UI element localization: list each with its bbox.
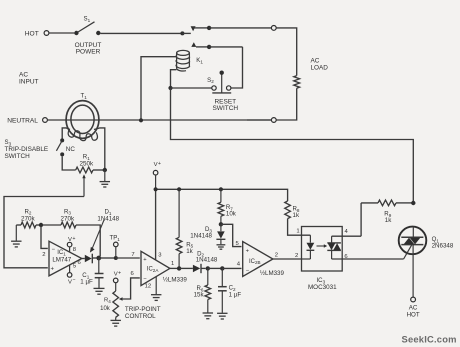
svg-text:10k: 10k <box>100 306 111 312</box>
wire <box>171 87 212 89</box>
ground <box>217 313 227 319</box>
node HOT input terminal <box>25 30 49 37</box>
svg-text:SeekIC.com: SeekIC.com <box>402 334 457 345</box>
label AC INPUT <box>19 72 39 86</box>
node junction <box>206 266 210 270</box>
watermark SeekIC.com <box>402 334 457 345</box>
svg-text:7: 7 <box>131 252 134 258</box>
wire winding right lead <box>94 128 105 168</box>
wire IC2A pin 12 to ground <box>145 277 157 295</box>
wire <box>92 257 114 259</box>
node junction <box>177 187 181 191</box>
resistor R5 1k <box>176 189 193 266</box>
arrow coupling symbol <box>317 244 328 248</box>
wire <box>276 88 297 120</box>
resistor R3 270k <box>42 208 76 228</box>
relay coil K1 <box>176 50 203 71</box>
wire coil bottom <box>171 70 177 87</box>
node AC load top terminal <box>271 26 276 31</box>
resistor R6 15k <box>194 268 211 312</box>
svg-text:AC: AC <box>19 72 28 79</box>
svg-text:270k: 270k <box>61 215 76 222</box>
node V+ pin 8 of IC1 <box>67 236 76 253</box>
ground <box>217 245 226 249</box>
resistor R7 10k <box>218 189 237 223</box>
wire IC3 pin 6 to triac gate <box>332 254 404 260</box>
svg-text:1k: 1k <box>186 248 193 255</box>
svg-text:NEUTRAL: NEUTRAL <box>7 118 38 125</box>
svg-text:POWER: POWER <box>76 48 101 55</box>
svg-text:10k: 10k <box>226 211 237 218</box>
node V+ terminal for R4 <box>113 270 121 291</box>
ground <box>11 225 21 247</box>
svg-text:250k: 250k <box>80 160 95 167</box>
LED inside IC3 <box>302 235 314 259</box>
svg-text:1N4148: 1N4148 <box>97 215 119 222</box>
ground <box>100 170 110 187</box>
test point TP1 <box>110 235 121 260</box>
ground <box>151 295 161 301</box>
node junction <box>220 266 224 270</box>
svg-text:SWITCH: SWITCH <box>212 105 238 112</box>
node NEUTRAL input terminal <box>7 118 47 125</box>
svg-text:12: 12 <box>145 284 152 290</box>
wire pin4 up to R9 <box>360 203 362 236</box>
switch S3 TRIP-DISABLE <box>5 138 76 160</box>
svg-text:NC: NC <box>66 146 76 153</box>
potentiometer R1 250k <box>76 153 103 196</box>
wire to IC1 pin 2 <box>41 226 48 258</box>
wire IC2A output pin 1 <box>170 261 178 268</box>
resistor R2 270k <box>16 208 39 228</box>
node V- pin 5 of IC1 <box>67 265 75 285</box>
svg-text:270k: 270k <box>21 215 36 222</box>
svg-text:+: + <box>158 161 161 167</box>
wire R3 feedback <box>76 225 100 256</box>
wire <box>231 47 243 88</box>
wire IC3 pin 4 <box>332 229 362 236</box>
node junction <box>411 201 415 205</box>
svg-text:INPUT: INPUT <box>19 79 39 86</box>
switch S1 OUTPUT POWER <box>74 16 101 56</box>
svg-text:1N4148: 1N4148 <box>196 257 218 264</box>
svg-text:+: + <box>50 266 54 272</box>
node junction <box>177 266 181 270</box>
relay contact K1-b (bottom) <box>191 42 242 49</box>
ground <box>110 317 120 326</box>
svg-text:15k: 15k <box>194 292 205 299</box>
node junction <box>139 118 143 122</box>
wire to IC2B pin 4 <box>222 262 241 269</box>
svg-text:+: + <box>72 236 75 242</box>
wire <box>208 267 221 269</box>
svg-text:CONTROL: CONTROL <box>125 313 156 320</box>
svg-text:R4: R4 <box>104 298 111 304</box>
node junction <box>103 168 107 172</box>
op-amp IC1 LM747 <box>49 241 82 276</box>
wire winding left lead <box>62 128 70 139</box>
node junction <box>39 223 43 227</box>
wire <box>101 32 182 34</box>
ground <box>203 313 213 319</box>
diode D3 1N4148 <box>190 224 225 244</box>
svg-text:HOT: HOT <box>25 30 39 37</box>
svg-text:½LM339: ½LM339 <box>163 276 188 283</box>
capacitor C2 1uF <box>218 268 241 312</box>
resistor R8 1k <box>285 201 300 219</box>
node junction <box>168 86 172 90</box>
wire R1 wiper to IC1 +input <box>4 197 84 268</box>
transformer T1 toroid <box>66 93 99 139</box>
svg-text:LOAD: LOAD <box>311 65 329 72</box>
wire triac MT1 to AC HOT <box>412 245 414 298</box>
svg-text:−: − <box>72 277 75 283</box>
resistor AC LOAD <box>294 58 328 89</box>
capacitor C1 1uF <box>80 258 103 288</box>
svg-text:LM747: LM747 <box>52 257 71 264</box>
svg-text:−: − <box>51 247 55 253</box>
svg-text:2: 2 <box>275 253 278 259</box>
svg-text:TRIP-POINT: TRIP-POINT <box>125 306 161 313</box>
resistor R9 1k <box>361 200 412 224</box>
svg-text:½LM339: ½LM339 <box>260 270 285 277</box>
ground <box>94 288 105 294</box>
svg-text:1k: 1k <box>385 217 392 224</box>
comparator IC2A half LM339 <box>141 251 187 285</box>
wire V+ rail <box>156 189 288 201</box>
svg-text:1 µF: 1 µF <box>80 279 93 286</box>
comparator IC2B half LM339 <box>243 242 285 278</box>
node junction <box>96 256 101 261</box>
svg-text:1N4148: 1N4148 <box>190 232 212 239</box>
wire <box>276 28 297 76</box>
diode D2 1N4148 <box>179 250 218 273</box>
wire <box>49 32 74 34</box>
svg-text:1: 1 <box>171 261 174 267</box>
svg-text:2: 2 <box>42 252 45 258</box>
svg-text:1 µF: 1 µF <box>229 291 242 298</box>
transformer T1 secondary winding <box>68 129 97 141</box>
node AC HOT terminal <box>407 297 420 318</box>
wire coil top to neutral <box>141 57 176 119</box>
wire <box>62 156 75 170</box>
svg-text:2N6348: 2N6348 <box>432 243 454 250</box>
triac Q1 2N6348 <box>399 227 454 259</box>
svg-text:SWITCH: SWITCH <box>5 153 31 160</box>
wire IC2B output pin 2 <box>273 253 302 259</box>
node junction <box>219 187 223 191</box>
optocoupler IC3 MOC3031 package <box>302 227 343 291</box>
wire neutral <box>47 119 271 121</box>
potentiometer R4 10k TRIP-POINT CONTROL <box>100 278 161 320</box>
wire S2 branch down <box>171 88 414 202</box>
svg-text:+: + <box>143 257 147 263</box>
node V+ supply terminal <box>153 161 161 190</box>
wire IC2A pin 3 from V+ rail <box>156 189 163 259</box>
svg-text:V: V <box>114 272 118 278</box>
svg-text:MOC3031: MOC3031 <box>308 284 337 291</box>
svg-text:AC: AC <box>311 58 320 65</box>
svg-text:1: 1 <box>296 229 299 235</box>
relay contact K1-a (top) <box>180 26 208 35</box>
svg-text:TRIP-DISABLE: TRIP-DISABLE <box>5 146 49 153</box>
node junction <box>219 222 223 226</box>
node junction <box>154 187 158 191</box>
svg-text:HOT: HOT <box>407 311 420 318</box>
diode D1 1N4148 <box>82 209 120 264</box>
svg-text:IC2A: IC2A <box>147 267 160 273</box>
svg-text:1k: 1k <box>293 212 300 219</box>
wire <box>247 119 271 121</box>
wire to IC2B pin 5 <box>221 224 242 247</box>
switch S2 RESET SWITCH <box>207 71 238 113</box>
svg-text:2: 2 <box>295 253 298 259</box>
wire to IC2A pin 7 <box>116 252 140 258</box>
wire <box>207 26 271 30</box>
svg-text:+: + <box>118 270 121 276</box>
svg-text:V: V <box>154 162 158 168</box>
wire R8 to IC3 pin 1 <box>288 219 311 236</box>
node AC load bottom terminal <box>271 118 276 123</box>
photo-triac inside IC3 <box>327 236 341 259</box>
svg-text:IC2B: IC2B <box>249 259 261 265</box>
wire label pin 6 <box>131 271 135 277</box>
